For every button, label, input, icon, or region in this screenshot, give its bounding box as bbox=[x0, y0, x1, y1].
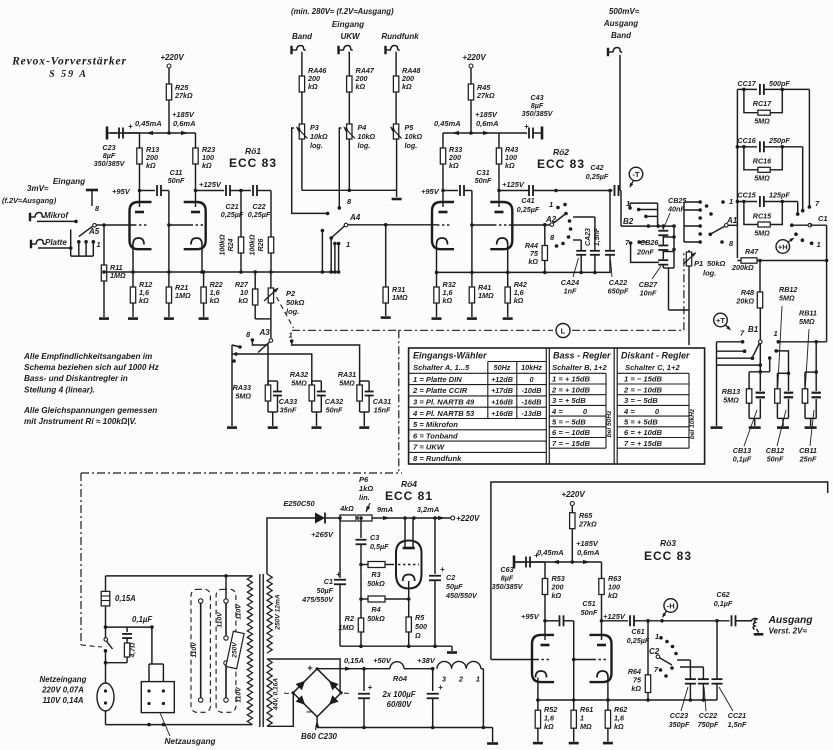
svg-text:C51: C51 bbox=[582, 599, 595, 608]
svg-text:bei 10kHz: bei 10kHz bbox=[689, 408, 696, 439]
svg-text:5MΩ: 5MΩ bbox=[754, 117, 770, 126]
svg-text:+185V: +185V bbox=[576, 539, 599, 548]
resistor RA46 bbox=[299, 76, 304, 92]
svg-text:A2: A2 bbox=[545, 215, 557, 224]
table row diskant 3 bbox=[617, 394, 689, 396]
svg-text:+: + bbox=[440, 565, 445, 574]
svg-text:C62: C62 bbox=[716, 590, 729, 599]
transformer secondary 44V bbox=[267, 659, 272, 726]
svg-text:1MΩ: 1MΩ bbox=[175, 291, 191, 300]
svg-text:5MΩ: 5MΩ bbox=[799, 317, 815, 326]
capacitor C11 bbox=[140, 190, 156, 192]
capacitor CC23 bbox=[689, 660, 691, 679]
svg-text:50kΩ: 50kΩ bbox=[367, 614, 385, 623]
resistor R26 bbox=[268, 237, 273, 253]
svg-text:C3: C3 bbox=[370, 533, 379, 542]
svg-text:B60 C230: B60 C230 bbox=[301, 732, 338, 741]
switch B2 bbox=[620, 190, 621, 192]
svg-text:Bass - Regler: Bass - Regler bbox=[553, 351, 611, 361]
voltage link box 1 bbox=[191, 589, 210, 712]
resistor R65 bbox=[570, 513, 575, 529]
svg-text:7 = − 15dB: 7 = − 15dB bbox=[552, 439, 591, 448]
ground R22 bbox=[199, 317, 209, 320]
svg-text:C61: C61 bbox=[631, 627, 644, 636]
svg-text:60/80V: 60/80V bbox=[387, 700, 413, 709]
wire bbox=[395, 51, 398, 53]
resistor R53 bbox=[544, 562, 546, 579]
wire RA31 top bbox=[292, 341, 360, 385]
svg-text:350/385V: 350/385V bbox=[492, 582, 524, 591]
svg-text:0,45mA: 0,45mA bbox=[135, 119, 162, 128]
wire to tone network bbox=[728, 224, 738, 226]
svg-text:5MΩ: 5MΩ bbox=[779, 294, 795, 303]
svg-text:10kΩ: 10kΩ bbox=[405, 132, 423, 141]
table row diskant 7 bbox=[617, 437, 689, 439]
svg-text:50nF: 50nF bbox=[168, 176, 185, 185]
tube Rö2 triode a bbox=[432, 202, 454, 249]
ground A3 bus bbox=[227, 426, 237, 429]
table row bass 6 bbox=[549, 426, 606, 428]
svg-text:R24: R24 bbox=[228, 238, 235, 251]
svg-text:5 = − 5dB: 5 = − 5dB bbox=[552, 418, 586, 427]
svg-text:+125V: +125V bbox=[603, 612, 626, 621]
socket Netzausgang bbox=[141, 682, 174, 713]
svg-text:220V 0,07A: 220V 0,07A bbox=[41, 686, 84, 695]
wire cathode1 bbox=[132, 245, 134, 273]
wire socket top bbox=[148, 664, 150, 682]
svg-text:C1: C1 bbox=[324, 577, 333, 586]
resistor R22 bbox=[203, 272, 205, 287]
resistor R3 bbox=[359, 563, 363, 567]
ground rail ECC81 bbox=[340, 645, 452, 647]
svg-text:500pF: 500pF bbox=[769, 79, 790, 88]
svg-text:P5: P5 bbox=[405, 123, 415, 132]
wire 44V to bridge bbox=[267, 659, 340, 693]
wire RA33 top bbox=[252, 340, 268, 385]
svg-text:+220V: +220V bbox=[561, 490, 585, 499]
table row bass 2 bbox=[549, 383, 606, 385]
svg-text:ECC 83: ECC 83 bbox=[644, 549, 692, 563]
svg-text:350pF: 350pF bbox=[669, 720, 690, 729]
table row 4 = Pl. NARTB 53 bbox=[409, 406, 547, 408]
svg-text:+95V: +95V bbox=[521, 612, 540, 621]
svg-text:7 = + 15dB: 7 = + 15dB bbox=[624, 439, 663, 448]
svg-text:6 = + 10dB: 6 = + 10dB bbox=[624, 428, 663, 437]
svg-text:+: + bbox=[128, 122, 133, 131]
switch B1 bbox=[759, 308, 761, 340]
table frame bbox=[409, 348, 705, 464]
svg-text:~: ~ bbox=[284, 689, 290, 700]
svg-text:10nF: 10nF bbox=[640, 289, 657, 298]
svg-text:25nF: 25nF bbox=[799, 455, 817, 464]
wire bridge DC minus bbox=[316, 717, 318, 728]
svg-text:4,7Ω: 4,7Ω bbox=[130, 642, 137, 658]
svg-text:0,1µF: 0,1µF bbox=[714, 599, 733, 608]
svg-text:CC15: CC15 bbox=[737, 191, 756, 200]
wire grid2 bbox=[169, 224, 191, 226]
svg-text:4 =: 4 = bbox=[551, 407, 563, 416]
svg-text:P4: P4 bbox=[358, 123, 367, 132]
wire grid2 stage2 bbox=[472, 224, 494, 226]
table row bass 3 bbox=[549, 394, 606, 396]
svg-text:110V: 110V bbox=[191, 641, 198, 658]
contact bbox=[637, 208, 641, 212]
svg-text:1: 1 bbox=[97, 240, 101, 249]
wire CC bus vertical bbox=[736, 89, 738, 258]
svg-text:0,45mA: 0,45mA bbox=[434, 119, 461, 128]
capacitor CA24 bbox=[580, 240, 582, 251]
capacitor 2x100µF a bbox=[363, 669, 365, 691]
table divider 2 bbox=[613, 348, 615, 464]
svg-text:4kΩ: 4kΩ bbox=[339, 504, 354, 513]
svg-text:50kΩ: 50kΩ bbox=[707, 259, 726, 268]
capacitor CC21 bbox=[716, 621, 718, 679]
svg-text:500mV≈: 500mV≈ bbox=[609, 7, 640, 16]
svg-text:6 = Tonband: 6 = Tonband bbox=[413, 431, 458, 440]
svg-text:0,5µF: 0,5µF bbox=[370, 542, 389, 551]
svg-text:+16dB: +16dB bbox=[491, 398, 513, 407]
resistor R31 bbox=[385, 225, 387, 287]
svg-text:50µF: 50µF bbox=[446, 582, 463, 591]
svg-text:C42: C42 bbox=[590, 163, 603, 172]
switch A1 bbox=[698, 200, 702, 204]
svg-text:RC17: RC17 bbox=[753, 99, 772, 108]
resistor R42 bbox=[507, 272, 509, 287]
svg-text:9mA: 9mA bbox=[377, 505, 393, 514]
wire anode2 bbox=[601, 595, 603, 641]
feedback wire frame bbox=[491, 482, 828, 660]
svg-text:Rundfunk: Rundfunk bbox=[381, 32, 419, 41]
resistor R23 bbox=[195, 133, 197, 148]
svg-text:-T: -T bbox=[632, 170, 640, 179]
ground R12 bbox=[128, 317, 138, 320]
wire wiper P3 to A4 bbox=[292, 128, 328, 213]
svg-text:Rö4: Rö4 bbox=[393, 674, 408, 683]
svg-text:Band: Band bbox=[292, 32, 313, 41]
capacitor 2x100µF b bbox=[432, 669, 434, 691]
resistor R32 bbox=[436, 272, 438, 287]
svg-text:kΩ: kΩ bbox=[614, 722, 624, 731]
svg-text:mit Jnstrument Ri ≈ 100kΩ|V.: mit Jnstrument Ri ≈ 100kΩ|V. bbox=[24, 417, 137, 426]
svg-text:110V: 110V bbox=[217, 611, 224, 628]
wire right vertical 7 bbox=[808, 89, 810, 207]
svg-text:Alle Empfindlichkeitsangaben i: Alle Empfindlichkeitsangaben im bbox=[23, 352, 152, 361]
tube Rö3 triode a bbox=[532, 635, 554, 682]
svg-text:500: 500 bbox=[415, 622, 427, 631]
table row bass 4 bbox=[549, 404, 606, 406]
pointer -T bbox=[629, 167, 643, 181]
wire wiper P4 to A4 bbox=[339, 128, 341, 208]
mains switch bbox=[104, 638, 108, 642]
wire bbox=[802, 147, 804, 211]
svg-text:Schalter C, 1+2: Schalter C, 1+2 bbox=[625, 363, 680, 372]
table row diskant 4 bbox=[617, 404, 689, 406]
resistor RB12 with capacitor CB12 bbox=[774, 349, 778, 353]
svg-text:+17dB: +17dB bbox=[491, 386, 513, 395]
svg-text:+: + bbox=[368, 683, 373, 692]
table row diskant 1 bbox=[617, 372, 689, 374]
svg-text:+185V: +185V bbox=[475, 110, 498, 119]
resistor RA48 bbox=[393, 76, 398, 92]
label leader RB11 bbox=[805, 329, 809, 386]
potentiometer P5 bbox=[393, 124, 398, 139]
svg-text:P1: P1 bbox=[694, 259, 703, 268]
svg-text:kΩ: kΩ bbox=[146, 161, 156, 170]
wire anode1 bbox=[544, 595, 546, 641]
svg-text:0,45mA: 0,45mA bbox=[537, 548, 564, 557]
svg-text:Rö1: Rö1 bbox=[245, 146, 261, 156]
svg-text:5MΩ: 5MΩ bbox=[291, 379, 307, 388]
svg-text:1: 1 bbox=[774, 329, 778, 338]
svg-text:+12dB: +12dB bbox=[491, 375, 513, 384]
svg-text:1 = − 15dB: 1 = − 15dB bbox=[624, 375, 663, 384]
table row 8 = Rundfunk bbox=[409, 451, 547, 453]
wire HT1 bbox=[110, 132, 196, 134]
table row diskant 5 bbox=[617, 415, 689, 417]
svg-text:0,6mA: 0,6mA bbox=[476, 119, 499, 128]
resistor R11 bbox=[101, 265, 106, 281]
potentiometer P4 bbox=[347, 124, 352, 139]
table row 5 = Mikrofon bbox=[409, 418, 547, 420]
wire bbox=[662, 265, 664, 268]
svg-text:kΩ: kΩ bbox=[608, 591, 618, 600]
svg-text:50nF: 50nF bbox=[767, 455, 784, 464]
svg-text:kΩ: kΩ bbox=[443, 296, 453, 305]
svg-text:200kΩ: 200kΩ bbox=[731, 263, 754, 272]
wire bbox=[470, 68, 472, 84]
wire A1 top contact bbox=[684, 201, 700, 203]
voltage link box 2 bbox=[216, 589, 236, 712]
wire bbox=[348, 51, 351, 53]
capacitor CA22 bbox=[609, 191, 611, 251]
wire bbox=[37, 220, 76, 222]
wire anode1 bbox=[139, 164, 141, 207]
ganging dash power supply bbox=[81, 472, 402, 474]
table row 7 = UKW bbox=[409, 440, 547, 442]
svg-text:Rö2: Rö2 bbox=[553, 147, 569, 157]
svg-text:R2: R2 bbox=[345, 614, 354, 623]
wire cathode2 bbox=[507, 245, 509, 273]
wire cathode2 bbox=[201, 245, 203, 273]
svg-text:kΩ: kΩ bbox=[238, 296, 248, 305]
transformer core bbox=[259, 574, 261, 727]
capacitor C23 bbox=[106, 127, 109, 140]
resistor R61 bbox=[573, 700, 575, 710]
wire bbox=[168, 68, 170, 84]
svg-text:+H: +H bbox=[778, 242, 788, 251]
svg-text:kΩ: kΩ bbox=[308, 82, 318, 91]
svg-text:Schalter A, 1...5: Schalter A, 1...5 bbox=[413, 363, 470, 372]
svg-text:0: 0 bbox=[530, 375, 534, 384]
switch A5 bbox=[70, 229, 72, 256]
resistor R12 bbox=[132, 272, 134, 287]
table row bass 7 bbox=[549, 437, 606, 439]
wire HT secondary to diode bbox=[267, 518, 315, 574]
capacitor C51 bbox=[545, 620, 559, 622]
tube Rö2 triode b bbox=[490, 202, 512, 249]
svg-text:10kΩ: 10kΩ bbox=[310, 132, 328, 141]
svg-text:(min. 280V≈ (f.2V≈Ausgang): (min. 280V≈ (f.2V≈Ausgang) bbox=[291, 7, 394, 16]
svg-text:450/550V: 450/550V bbox=[445, 591, 478, 600]
svg-text:-13dB: -13dB bbox=[522, 409, 542, 418]
heater rail +50V bbox=[317, 668, 390, 670]
svg-text:kΩ: kΩ bbox=[210, 296, 220, 305]
table row 3 = Pl. NARTB 49 bbox=[409, 395, 547, 397]
svg-text:+125V: +125V bbox=[199, 180, 222, 189]
svg-text:15nF: 15nF bbox=[374, 406, 391, 415]
svg-text:27kΩ: 27kΩ bbox=[476, 91, 495, 100]
table row bass 5 bbox=[549, 415, 606, 417]
svg-text:27kΩ: 27kΩ bbox=[174, 91, 193, 100]
svg-text:1: 1 bbox=[289, 331, 293, 340]
resistor RA47 bbox=[347, 76, 352, 92]
wire HT2 bbox=[443, 132, 527, 134]
ground R41 bbox=[467, 317, 477, 320]
svg-text:L: L bbox=[561, 326, 566, 335]
svg-text:B1: B1 bbox=[748, 325, 759, 334]
svg-text:4 =: 4 = bbox=[623, 407, 635, 416]
wire to grid2 bbox=[464, 190, 472, 192]
wire grid2 stage3 bbox=[574, 659, 594, 661]
jack input bbox=[384, 46, 386, 55]
svg-text:kΩ: kΩ bbox=[514, 296, 524, 305]
wire bbox=[230, 190, 251, 192]
capacitor C22 bbox=[252, 185, 254, 196]
wire pot bottoms bus bbox=[301, 139, 303, 190]
svg-text:+16dB: +16dB bbox=[491, 409, 513, 418]
wire B1 left bus bbox=[716, 342, 718, 426]
potentiometer P2 bbox=[270, 272, 272, 288]
svg-text:Revox-Vorverstärker: Revox-Vorverstärker bbox=[11, 56, 127, 68]
wire bbox=[629, 203, 631, 208]
jack Platte bbox=[30, 240, 32, 249]
wire cathode1 bbox=[436, 245, 438, 273]
ground R42 bbox=[503, 317, 513, 320]
svg-text:27kΩ: 27kΩ bbox=[578, 520, 597, 529]
resistor RC15 bbox=[744, 202, 758, 225]
resistor R5 bbox=[408, 599, 410, 617]
resistor R24 bbox=[240, 191, 242, 238]
resistor R2 bbox=[360, 599, 362, 618]
svg-text:CC23: CC23 bbox=[670, 711, 688, 720]
table row bass 1 bbox=[549, 372, 606, 374]
svg-text:650pF: 650pF bbox=[608, 287, 629, 296]
ground R62 bbox=[603, 742, 613, 745]
ground B1 bus bbox=[711, 426, 723, 429]
wire anode2 bbox=[195, 164, 197, 207]
svg-text:6 = − 10dB: 6 = − 10dB bbox=[552, 428, 591, 437]
wire HT3 bbox=[514, 561, 602, 563]
svg-text:R5: R5 bbox=[415, 613, 425, 622]
svg-text:1MΩ: 1MΩ bbox=[478, 291, 494, 300]
svg-text:0,15A: 0,15A bbox=[344, 656, 364, 665]
svg-text:5MΩ: 5MΩ bbox=[339, 379, 355, 388]
svg-text:50Hz: 50Hz bbox=[494, 363, 511, 372]
jack Ausgang bbox=[736, 620, 751, 622]
svg-text:R3: R3 bbox=[371, 570, 380, 579]
svg-text:-H: -H bbox=[667, 601, 675, 610]
ground R52 bbox=[533, 742, 543, 745]
DC bottom rail bbox=[317, 727, 493, 729]
svg-text:100kΩ: 100kΩ bbox=[220, 234, 227, 256]
svg-text:Stellung 4 (linear).: Stellung 4 (linear). bbox=[24, 385, 95, 394]
svg-text:Eingangs-Wähler: Eingangs-Wähler bbox=[413, 351, 487, 361]
svg-text:3mV≈: 3mV≈ bbox=[27, 184, 49, 193]
svg-text:+220V: +220V bbox=[462, 53, 486, 62]
svg-text:+185V: +185V bbox=[172, 110, 195, 119]
wire bbox=[38, 247, 71, 249]
heater Rö4 bbox=[390, 662, 404, 669]
svg-text:4 = Pl. NARTB 53: 4 = Pl. NARTB 53 bbox=[412, 409, 475, 418]
svg-text:50kΩ: 50kΩ bbox=[286, 298, 305, 307]
wire cathode rail stage1 bbox=[104, 271, 339, 273]
table row diskant 6 bbox=[617, 426, 689, 428]
contact bbox=[637, 240, 641, 244]
svg-text:Mikrof: Mikrof bbox=[44, 211, 69, 220]
resistor R33 bbox=[442, 133, 444, 148]
jack Ausgang Band bbox=[607, 48, 609, 57]
link 250V bbox=[226, 631, 244, 669]
resistor R52 bbox=[536, 698, 540, 702]
svg-text:(f.2V≈Ausgang): (f.2V≈Ausgang) bbox=[2, 196, 57, 205]
svg-text:+220V: +220V bbox=[160, 53, 184, 62]
svg-text:0,25µF: 0,25µF bbox=[586, 172, 609, 181]
svg-text:475/550V: 475/550V bbox=[301, 595, 334, 604]
svg-text:CB26: CB26 bbox=[640, 238, 659, 247]
resistor R48 bbox=[759, 261, 761, 293]
resistor R43 bbox=[498, 133, 500, 148]
ground R32 bbox=[432, 317, 442, 320]
resistor R64 bbox=[647, 621, 649, 675]
svg-text:kΩ: kΩ bbox=[631, 684, 641, 693]
svg-text:20nF: 20nF bbox=[636, 248, 654, 257]
table row 2 = Platte CCIR bbox=[409, 384, 547, 386]
ground R11 bbox=[99, 317, 109, 320]
svg-text:1 = Platte DIN: 1 = Platte DIN bbox=[413, 375, 462, 384]
svg-text:P6: P6 bbox=[359, 475, 369, 484]
svg-text:1: 1 bbox=[655, 632, 659, 641]
svg-text:0,1µF: 0,1µF bbox=[733, 455, 752, 464]
tube Rö3 triode b bbox=[590, 635, 612, 682]
svg-text:+95V: +95V bbox=[112, 187, 131, 196]
svg-text:+: + bbox=[307, 663, 313, 674]
wire anode2 bbox=[498, 164, 500, 207]
ground P5 bbox=[392, 198, 402, 201]
resistor R63 bbox=[601, 562, 603, 579]
wire cathodes bbox=[537, 678, 539, 701]
svg-text:1: 1 bbox=[476, 675, 480, 684]
svg-text:50nF: 50nF bbox=[326, 406, 343, 415]
svg-text:10kHz: 10kHz bbox=[521, 363, 542, 372]
svg-text:Rö4: Rö4 bbox=[401, 479, 417, 489]
pointer +H bbox=[776, 240, 790, 254]
svg-text:20kΩ: 20kΩ bbox=[735, 297, 754, 306]
svg-text:kΩ: kΩ bbox=[552, 591, 562, 600]
input terminal 8 bbox=[86, 189, 98, 192]
svg-text:350/385V: 350/385V bbox=[522, 109, 554, 118]
resistor RC17 bbox=[744, 89, 758, 112]
svg-text:1 = + 15dB: 1 = + 15dB bbox=[552, 375, 591, 384]
wire RA32 top bbox=[236, 354, 312, 385]
svg-text:kΩ: kΩ bbox=[528, 257, 538, 266]
svg-text:110V: 110V bbox=[236, 603, 243, 620]
svg-text:lin.: lin. bbox=[359, 493, 370, 502]
wire to grid2 bbox=[161, 190, 169, 192]
svg-text:Eingang: Eingang bbox=[53, 177, 85, 186]
svg-text:bei 50Hz: bei 50Hz bbox=[606, 410, 613, 437]
svg-text:A5: A5 bbox=[88, 227, 100, 236]
table row 6 = Tonband bbox=[409, 429, 547, 431]
